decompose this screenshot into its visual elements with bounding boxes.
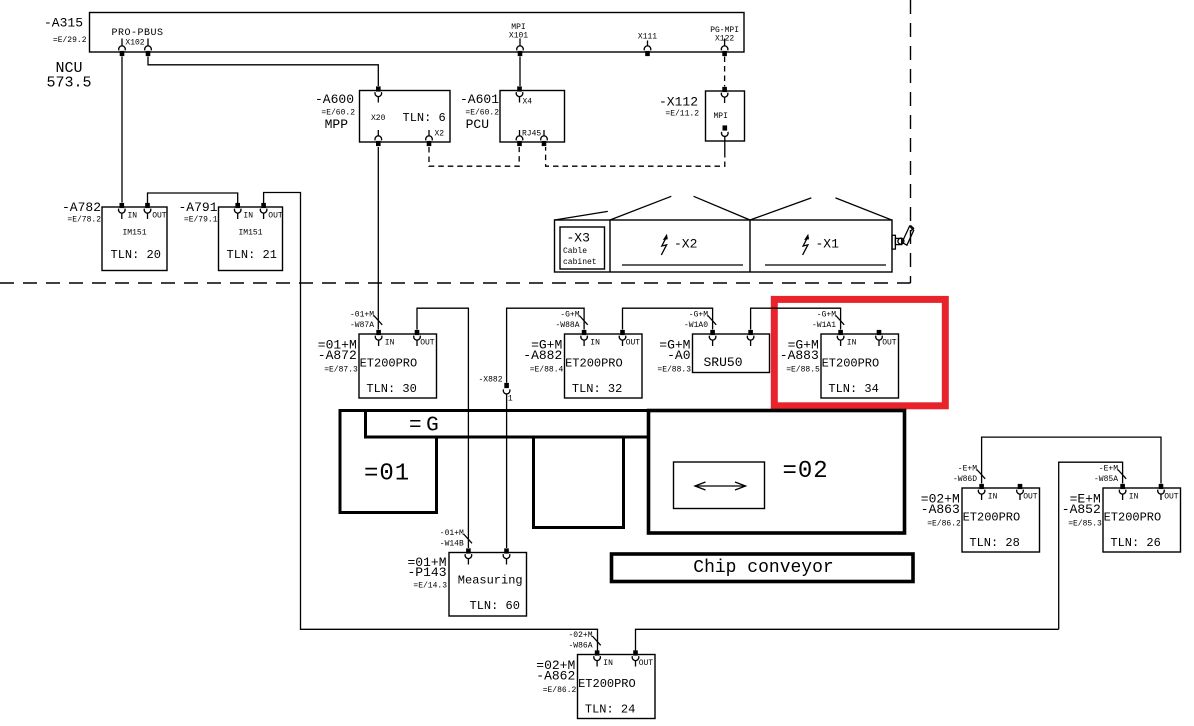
svg-text:IN: IN [1129, 493, 1139, 502]
svg-text:=E/85.3: =E/85.3 [1068, 520, 1102, 529]
svg-text:OUT: OUT [882, 339, 897, 348]
svg-text:=E/79.1: =E/79.1 [184, 216, 218, 225]
svg-text:=01: =01 [364, 461, 410, 488]
svg-text:X4: X4 [523, 98, 533, 107]
svg-text:=E/88.4: =E/88.4 [530, 366, 564, 375]
svg-text:ET200PRO: ET200PRO [963, 511, 1021, 525]
svg-text:Cable: Cable [563, 247, 587, 256]
svg-text:-E+M: -E+M [958, 465, 977, 474]
svg-text:=E/29.2: =E/29.2 [53, 36, 87, 45]
svg-text:ET200PRO: ET200PRO [578, 677, 636, 691]
svg-text:RJ45: RJ45 [522, 130, 541, 139]
svg-text:-W1A1: -W1A1 [812, 321, 836, 330]
svg-text:=E/88.3: =E/88.3 [657, 366, 691, 375]
svg-text:-A600: -A600 [315, 92, 354, 107]
svg-text:TLN: 28: TLN: 28 [969, 536, 1019, 550]
svg-text:-A782: -A782 [62, 200, 101, 215]
svg-text:-W86A: -W86A [568, 642, 592, 651]
svg-text:ET200PRO: ET200PRO [1104, 511, 1162, 525]
svg-text:-A601: -A601 [460, 92, 499, 107]
svg-text:TLN: 26: TLN: 26 [1110, 536, 1160, 550]
svg-text:-W1A0: -W1A0 [684, 321, 708, 330]
svg-text:IM151: IM151 [238, 229, 262, 238]
svg-text:TLN: 30: TLN: 30 [366, 382, 416, 396]
svg-text:IN: IN [988, 493, 998, 502]
svg-text:MPI: MPI [714, 112, 728, 121]
svg-text:-A883: -A883 [780, 348, 819, 363]
svg-text:TLN: 24: TLN: 24 [585, 703, 635, 717]
svg-text:IM151: IM151 [122, 229, 146, 238]
svg-text:IN: IN [603, 659, 613, 668]
svg-text:IN: IN [847, 339, 857, 348]
svg-text:1: 1 [508, 395, 513, 404]
svg-text:-A882: -A882 [523, 348, 562, 363]
svg-text:X102: X102 [125, 39, 144, 48]
svg-text:=E/87.3: =E/87.3 [324, 366, 358, 375]
svg-text:TLN: 60: TLN: 60 [470, 599, 520, 613]
svg-text:OUT: OUT [1023, 493, 1038, 502]
svg-text:ET200PRO: ET200PRO [565, 357, 623, 371]
svg-text:MPP: MPP [325, 117, 349, 132]
svg-text:=E/14.3: =E/14.3 [413, 582, 447, 591]
svg-text:OUT: OUT [152, 212, 167, 221]
svg-text:ET200PRO: ET200PRO [360, 357, 418, 371]
svg-text:=E/11.2: =E/11.2 [665, 110, 699, 119]
svg-text:=G: =G [409, 415, 443, 438]
svg-text:X2: X2 [435, 130, 445, 139]
svg-text:SRU50: SRU50 [704, 355, 743, 370]
svg-text:-E+M: -E+M [1099, 465, 1118, 474]
svg-text:-A872: -A872 [318, 348, 357, 363]
svg-text:cabinet: cabinet [563, 258, 597, 267]
svg-text:IN: IN [590, 339, 600, 348]
svg-text:PCU: PCU [466, 117, 489, 132]
svg-text:-X882: -X882 [478, 376, 502, 385]
svg-text:IN: IN [385, 339, 395, 348]
svg-text:TLN: 6: TLN: 6 [403, 111, 446, 125]
svg-text:-W85A: -W85A [1094, 475, 1118, 484]
svg-text:=E/86.2: =E/86.2 [927, 520, 961, 529]
svg-text:ET200PRO: ET200PRO [822, 357, 880, 371]
svg-text:X111: X111 [638, 33, 657, 42]
svg-text:-X2: -X2 [674, 237, 697, 252]
svg-text:-A863: -A863 [921, 502, 960, 517]
svg-text:-02+M: -02+M [568, 631, 592, 640]
svg-text:OUT: OUT [639, 659, 654, 668]
svg-text:TLN: 20: TLN: 20 [111, 248, 161, 262]
svg-text:-W86D: -W86D [953, 475, 977, 484]
svg-text:OUT: OUT [268, 212, 283, 221]
svg-text:IN: IN [128, 212, 138, 221]
svg-text:-W87A: -W87A [350, 321, 374, 330]
svg-text:=E/86.2: =E/86.2 [543, 686, 577, 695]
svg-text:=02: =02 [783, 458, 829, 485]
svg-text:PRO-PBUS: PRO-PBUS [112, 28, 164, 39]
svg-text:-A852: -A852 [1062, 502, 1101, 517]
svg-text:-X3: -X3 [567, 231, 590, 246]
svg-text:-A315: -A315 [44, 16, 83, 31]
svg-text:X101: X101 [509, 32, 528, 41]
svg-text:IN: IN [243, 212, 253, 221]
svg-text:-X1: -X1 [816, 237, 840, 252]
svg-text:X20: X20 [371, 114, 386, 123]
svg-text:OUT: OUT [1164, 493, 1179, 502]
svg-text:-A0: -A0 [667, 348, 690, 363]
svg-text:TLN: 34: TLN: 34 [828, 382, 878, 396]
svg-text:573.5: 573.5 [46, 75, 91, 92]
svg-text:-X112: -X112 [659, 95, 698, 110]
svg-text:TLN: 21: TLN: 21 [227, 248, 277, 262]
svg-text:-W14B: -W14B [440, 540, 464, 549]
svg-text:=E/78.2: =E/78.2 [67, 216, 101, 225]
svg-text:OUT: OUT [420, 339, 435, 348]
svg-text:-A791: -A791 [178, 200, 217, 215]
svg-text:-01+M: -01+M [440, 529, 464, 538]
svg-text:OUT: OUT [626, 339, 641, 348]
svg-text:Chip conveyor: Chip conveyor [693, 558, 833, 578]
svg-text:-G+M: -G+M [560, 311, 579, 320]
svg-text:-P143: -P143 [407, 565, 446, 580]
svg-text:TLN: 32: TLN: 32 [572, 382, 622, 396]
svg-text:=E/88.5: =E/88.5 [786, 366, 820, 375]
svg-text:Measuring: Measuring [458, 574, 523, 588]
svg-text:-01+M: -01+M [350, 311, 374, 320]
svg-text:-G+M: -G+M [817, 311, 836, 320]
svg-text:-G+M: -G+M [689, 311, 708, 320]
svg-text:-W88A: -W88A [555, 321, 579, 330]
svg-text:X122: X122 [715, 35, 734, 44]
svg-text:-A862: -A862 [536, 668, 575, 683]
